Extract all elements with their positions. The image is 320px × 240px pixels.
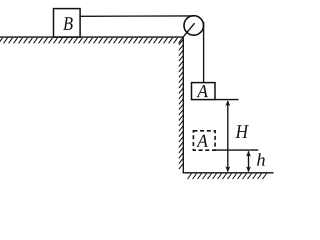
table right edge wall [182, 36, 184, 172]
block B [54, 9, 81, 37]
label A in dashed block [196, 135, 208, 147]
wall hatching [179, 40, 183, 170]
pulley wheel [184, 16, 204, 36]
arrow H shaft [227, 101, 229, 172]
label h [257, 153, 265, 166]
arrow h shaft [248, 151, 250, 171]
table top hatching [0, 38, 182, 44]
reference line at bottom of dashed A [215, 149, 259, 151]
label B [63, 17, 72, 30]
arrowhead H bottom [225, 166, 230, 172]
label H [235, 125, 248, 138]
block A (hanging) [192, 83, 216, 100]
table top surface line [0, 36, 184, 38]
arrowhead h top [246, 151, 251, 157]
ground hatching [188, 174, 267, 180]
arrowhead h bottom [246, 166, 251, 172]
wire string from B to pulley [80, 15, 194, 17]
pulley support arm [184, 23, 195, 36]
reference line at bottom of block A [215, 99, 239, 101]
wire string from pulley down to block A [203, 22, 205, 83]
block A final position (dashed) [193, 131, 215, 150]
ground line [183, 172, 274, 174]
label A in hanging block [196, 85, 208, 97]
arrowhead H top [225, 100, 230, 106]
